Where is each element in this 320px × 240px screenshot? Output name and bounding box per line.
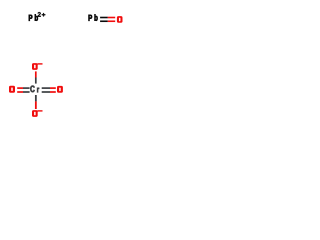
single bond Cr-O bottom, O half bbox=[35, 101, 37, 109]
charge minus of bottom O bbox=[38, 110, 43, 112]
ion Pb2+ label, letter P bbox=[29, 15, 32, 21]
double bond Cr=O right lower line, O half bbox=[50, 91, 56, 93]
double bond Pb=O upper line, O half bbox=[108, 17, 115, 19]
atom Pb of lead oxide, letter P bbox=[89, 15, 93, 21]
double bond Cr=O right lower line, Cr half bbox=[42, 91, 50, 93]
double bond Cr=O right upper line, Cr half bbox=[42, 87, 50, 89]
double bond Cr=O left lower line, O half bbox=[17, 91, 23, 93]
atom Cr, letter r bbox=[37, 88, 39, 93]
double bond Cr=O left upper line, Cr half bbox=[23, 87, 30, 89]
atom O left bbox=[9, 86, 15, 93]
double bond Pb=O lower line, Pb half bbox=[100, 20, 108, 22]
ion Pb2+ label, letter b bbox=[35, 14, 38, 20]
double bond Cr=O left lower line, Cr half bbox=[23, 91, 30, 93]
atom O right bbox=[57, 86, 63, 93]
atom O bottom (O-) bbox=[32, 110, 38, 117]
atom Cr, letter C bbox=[30, 86, 34, 93]
single bond Cr-O bottom, Cr half bbox=[35, 95, 37, 101]
double bond Cr=O right upper line, O half bbox=[50, 87, 56, 89]
charge superscript plus bbox=[42, 13, 45, 16]
charge minus of top O bbox=[38, 63, 43, 65]
atom O top (O-) bbox=[32, 63, 38, 70]
double bond Pb=O upper line, Pb half bbox=[100, 17, 108, 19]
atom Pb of lead oxide, letter b bbox=[95, 14, 98, 20]
double bond Pb=O lower line, O half bbox=[108, 20, 115, 22]
single bond Cr-O top, Cr half bbox=[35, 78, 37, 84]
single bond Cr-O top, O half bbox=[35, 71, 37, 77]
atom O of lead oxide bbox=[117, 16, 123, 23]
charge superscript 2 bbox=[38, 12, 41, 17]
double bond Cr=O left upper line, O half bbox=[17, 87, 23, 89]
